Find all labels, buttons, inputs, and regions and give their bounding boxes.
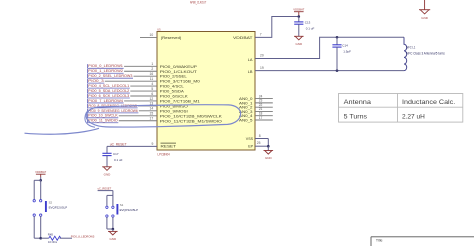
svg-text:10 Ohm: 10 Ohm xyxy=(48,240,58,244)
pin name PIO0_3/CT16B_M0 xyxy=(160,80,200,84)
svg-text:GND: GND xyxy=(295,42,303,46)
svg-text:17: 17 xyxy=(150,117,154,121)
svg-text:C17: C17 xyxy=(113,152,119,156)
svg-text:6: 6 xyxy=(151,92,153,96)
wire stub AN0_1 pin 23 xyxy=(255,99,273,103)
ground below C17 xyxy=(102,167,112,177)
port PIO0_11_SWDIO xyxy=(87,119,118,123)
pin name PIO0_9/MOSI xyxy=(160,109,188,113)
svg-text:RESET: RESET xyxy=(161,144,177,148)
part number LPC8N04 xyxy=(158,153,170,157)
svg-text:S1: S1 xyxy=(120,203,124,207)
wire uC_RESET to S1 xyxy=(98,191,113,196)
pin name PIO0_8/MISO xyxy=(160,104,188,108)
wire stub AN0_3 pin 21 xyxy=(255,107,273,111)
wire stub pin 17 xyxy=(119,117,157,121)
ground below S1 xyxy=(108,229,118,241)
svg-text:LPC8N04: LPC8N04 xyxy=(158,153,170,157)
svg-text:25: 25 xyxy=(257,141,261,145)
wire stub pin 10 (Reserved) xyxy=(140,33,157,37)
ground below C13 xyxy=(294,36,304,46)
pin 7 VDDBAT name xyxy=(233,35,253,40)
port PIO0_0_LEDROW1 xyxy=(87,64,123,68)
svg-text:12: 12 xyxy=(150,97,154,101)
svg-text:PIO0_10_SWCLK: PIO0_10_SWCLK xyxy=(88,114,118,118)
port PIO0_9_SEVENSEG_LEDROW6 xyxy=(87,109,138,113)
wire pin 7 VDDBAT net xyxy=(255,17,299,38)
wire stub AN0_5 pin 17 xyxy=(255,116,273,120)
svg-text:C14: C14 xyxy=(342,44,348,48)
svg-text:VDDBAT: VDDBAT xyxy=(233,35,253,40)
table antenna inductance xyxy=(339,94,463,123)
switch S2 EVQP22U5LP xyxy=(33,180,67,238)
svg-text:PIO0_0/WAKEUP: PIO0_0/WAKEUP xyxy=(160,65,198,69)
svg-text:PIO0_2_SSEL_LEDROW3: PIO0_2_SSEL_LEDROW3 xyxy=(88,74,132,78)
svg-text:R45: R45 xyxy=(48,232,54,236)
svg-text:EVQP22U5LP: EVQP22U5LP xyxy=(49,206,68,210)
wire pin 19 LB net xyxy=(255,66,404,71)
capacitor C13 0.1 uF xyxy=(294,17,314,37)
svg-text:19: 19 xyxy=(260,66,264,70)
svg-text:Title: Title xyxy=(376,239,383,243)
svg-text:VDDBAT: VDDBAT xyxy=(293,7,304,11)
svg-text:AN0_5: AN0_5 xyxy=(239,118,253,122)
power symbol VDDBAT xyxy=(293,7,304,16)
svg-text:PIO0_0_LEDROW1: PIO0_0_LEDROW1 xyxy=(88,64,123,68)
svg-text:PIO0_3: PIO0_3 xyxy=(88,79,104,83)
svg-text:GND: GND xyxy=(104,172,112,176)
junction node LA/C14 xyxy=(336,36,339,39)
svg-text:C13: C13 xyxy=(305,21,311,25)
port PIO0_7_LEDROW4 xyxy=(87,99,123,103)
svg-text:VDDBAT: VDDBAT xyxy=(35,170,46,174)
switch S1 EVQP22U5LP xyxy=(106,195,138,229)
svg-text:10: 10 xyxy=(150,33,154,37)
wire stub pin 2 xyxy=(124,67,157,71)
svg-text:uC_RESET: uC_RESET xyxy=(98,187,112,191)
svg-text:16: 16 xyxy=(150,72,154,76)
pin name AN0_2 xyxy=(239,106,253,110)
pin 10 (Reserved) name xyxy=(161,35,182,40)
svg-text:VSS: VSS xyxy=(246,137,254,141)
wire stub AN0_4 pin 18 xyxy=(255,112,273,116)
capacitor C17 0.1 uF xyxy=(102,146,122,166)
pin name PIO0_10/CT32B_M0/SWCLK xyxy=(160,114,223,118)
wire pin 9 RESET xyxy=(107,142,157,146)
svg-text:EVQP22U5LP: EVQP22U5LP xyxy=(120,208,139,212)
svg-text:1.5pF: 1.5pF xyxy=(343,49,351,53)
svg-text:(Reserved): (Reserved) xyxy=(161,35,182,40)
svg-text:EP: EP xyxy=(248,144,253,148)
inductor L1 NFC antenna xyxy=(404,37,445,70)
wire stub pin 4 xyxy=(130,82,157,86)
capacitor C14 1.5pF xyxy=(332,37,351,70)
svg-text:APB0_CLKOUT: APB0_CLKOUT xyxy=(190,0,206,4)
ground below VSS/EP xyxy=(264,146,274,160)
svg-text:NFC L1: NFC L1 xyxy=(406,45,415,49)
pin name AN0_0 xyxy=(239,97,253,101)
resistor R45 10 Ohm xyxy=(41,232,61,244)
wire stub pin 15 xyxy=(119,112,157,116)
svg-text:14: 14 xyxy=(150,107,154,111)
port PIO0_5_SDA_LEDCOL2 xyxy=(87,89,129,93)
svg-text:LB: LB xyxy=(248,69,253,74)
pin 19 LB name xyxy=(248,69,253,74)
svg-text:LA: LA xyxy=(248,57,253,62)
wire stub AN0_0 pin 24 xyxy=(255,94,273,98)
port PIO0_3 xyxy=(87,79,104,83)
power symbol VDDBAT (S2) xyxy=(35,170,46,177)
svg-text:GND: GND xyxy=(109,237,117,241)
svg-text:PIO0_6/SCLK: PIO0_6/SCLK xyxy=(160,95,189,99)
svg-text:0.1 uF: 0.1 uF xyxy=(306,27,315,31)
pin name PIO0_7/CT16B_M1 xyxy=(160,99,200,103)
svg-text:17: 17 xyxy=(259,116,263,120)
svg-text:5: 5 xyxy=(151,87,153,91)
svg-text:PIO0_9/MOSI: PIO0_9/MOSI xyxy=(160,109,188,113)
svg-text:PIO0_7/CT16B_M1: PIO0_7/CT16B_M1 xyxy=(160,99,200,103)
wire stub AN0_2 pin 22 xyxy=(255,103,273,107)
svg-text:PIO0_6_SCK_LEDCOL3: PIO0_6_SCK_LEDCOL3 xyxy=(88,94,129,98)
junction node VDDBAT xyxy=(298,15,301,18)
wire stub pin 13 xyxy=(138,102,157,106)
port PIO0_1_LEDROW2 xyxy=(87,69,123,73)
svg-text:5 Turns: 5 Turns xyxy=(344,114,367,120)
wire stub pin 6 xyxy=(130,92,157,96)
svg-text:PIO0_4_SCL_LEDCOL1: PIO0_4_SCL_LEDCOL1 xyxy=(88,84,129,88)
svg-text:PIO0_5_SDA_LEDCOL2: PIO0_5_SDA_LEDCOL2 xyxy=(88,89,129,93)
junction node S1 bottom xyxy=(112,228,115,231)
svg-text:1: 1 xyxy=(151,62,153,66)
svg-text:GND: GND xyxy=(421,16,429,20)
port PIO0_8_SEVENSEG_LEDROW5 xyxy=(87,104,137,108)
net label PIO0_8_LEDROW5 xyxy=(71,235,95,239)
pin name PIO0_2/SSEL xyxy=(160,75,187,79)
wire stub pin 5 xyxy=(130,87,157,91)
svg-text:PIO0_3/CT16B_M0: PIO0_3/CT16B_M0 xyxy=(160,80,200,84)
svg-text:PIO0_1_LEDROW2: PIO0_1_LEDROW2 xyxy=(88,69,123,73)
net label top (clipped) xyxy=(190,0,206,4)
svg-text:0.1 uF: 0.1 uF xyxy=(114,158,123,162)
wire R45 to net label xyxy=(60,237,72,239)
wire VDDBAT to S2 xyxy=(39,177,42,182)
designator U5 xyxy=(157,27,161,31)
wire stub pin 16 xyxy=(134,72,158,76)
svg-text:PIO0_4/SCL: PIO0_4/SCL xyxy=(160,85,184,89)
junction node S2 bottom xyxy=(39,237,42,240)
port PIO0_10_SWCLK xyxy=(87,114,118,118)
net label uC_RESET at pin 9 xyxy=(110,142,127,146)
svg-text:PIO0_5/SDA: PIO0_5/SDA xyxy=(160,90,185,94)
svg-text:2: 2 xyxy=(151,67,153,71)
pin name PIO0_4/SCL xyxy=(160,85,184,89)
svg-text:4: 4 xyxy=(151,82,153,86)
svg-text:GND: GND xyxy=(265,156,273,160)
pin name PIO0_6/SCLK xyxy=(160,95,189,99)
pin name PIO0_5/SDA xyxy=(160,90,185,94)
svg-text:2.27 uH: 2.27 uH xyxy=(402,114,425,120)
svg-text:PIO0_10/CT32B_M0/SWCLK: PIO0_10/CT32B_M0/SWCLK xyxy=(160,114,223,118)
ground top right xyxy=(419,0,430,20)
IC U5 LPC8N04 body xyxy=(157,32,255,151)
svg-text:Inductance Calc.: Inductance Calc. xyxy=(402,100,456,106)
annotation ellipse (hand-drawn highlight) xyxy=(25,105,241,135)
svg-text:15: 15 xyxy=(150,112,154,116)
svg-text:PIO0_11/CT32B_M1/SWDIO: PIO0_11/CT32B_M1/SWDIO xyxy=(160,119,222,123)
svg-text:9: 9 xyxy=(152,142,154,146)
pin 20 LA name xyxy=(248,57,253,62)
wire pin 20 LA net xyxy=(255,37,404,58)
port PIO0_4_SCL_LEDCOL1 xyxy=(87,84,129,88)
pin name AN0_4 xyxy=(239,114,253,118)
pin 25 EP name xyxy=(248,144,253,148)
port PIO0_2_SSEL_LEDROW3 xyxy=(87,74,133,78)
pin name AN0_3 xyxy=(239,110,253,114)
wire stub pin 1 xyxy=(124,62,157,66)
svg-text:8: 8 xyxy=(259,134,261,138)
svg-text:Antenna: Antenna xyxy=(344,100,372,106)
pin name PIO0_0/WAKEUP xyxy=(160,65,198,69)
pin 8 VSS name xyxy=(246,137,254,141)
pin name AN0_1 xyxy=(239,101,253,105)
svg-text:20: 20 xyxy=(260,54,264,58)
pin 9 RESET name with overline xyxy=(161,143,177,148)
wire pin 25 EP xyxy=(255,139,268,147)
wire stub pin 14 xyxy=(139,107,157,111)
svg-text:PIO0_9_SEVENSEG_LEDROW6: PIO0_9_SEVENSEG_LEDROW6 xyxy=(88,109,138,113)
svg-text:11: 11 xyxy=(150,77,154,81)
junction node LB/C14 xyxy=(336,69,339,72)
title block corner xyxy=(371,237,474,246)
svg-text:S2: S2 xyxy=(49,200,53,204)
svg-text:NFC Class 3 Antenna/5 turns: NFC Class 3 Antenna/5 turns xyxy=(406,51,445,55)
svg-text:PIO0_2/SSEL: PIO0_2/SSEL xyxy=(160,75,187,79)
wire pin 8 VSS xyxy=(255,134,268,138)
net label uC_RESET (S1) xyxy=(98,187,112,191)
wire stub pin 11 xyxy=(105,77,157,81)
svg-text:PIO0_7_LEDROW4: PIO0_7_LEDROW4 xyxy=(88,99,123,103)
junction node VSS/EP xyxy=(267,145,270,148)
svg-text:7: 7 xyxy=(260,33,262,37)
port PIO0_6_SCK_LEDCOL3 xyxy=(87,94,129,98)
svg-text:U5: U5 xyxy=(157,27,161,31)
svg-text:PIO0_8_LEDROW5: PIO0_8_LEDROW5 xyxy=(71,235,95,239)
svg-text:PIO0_11_SWDIO: PIO0_11_SWDIO xyxy=(88,119,118,123)
svg-text:PIO0_1/CLKOUT: PIO0_1/CLKOUT xyxy=(160,70,198,74)
svg-text:uC_RESET: uC_RESET xyxy=(110,142,127,146)
wire stub pin 12 xyxy=(124,97,157,101)
pin name AN0_5 xyxy=(239,118,253,122)
pin name PIO0_11/CT32B_M1/SWDIO xyxy=(160,119,222,123)
pin name PIO0_1/CLKOUT xyxy=(160,70,198,74)
